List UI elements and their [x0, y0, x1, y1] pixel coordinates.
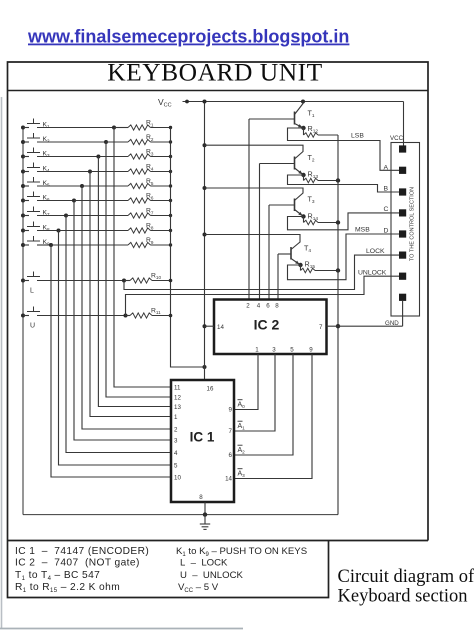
wire K4 to IC1 input pin: [90, 172, 171, 417]
wire connector GND pin down: [402, 301, 404, 326]
resistor R6: [128, 198, 151, 203]
wire R11 to pull-up bus: [152, 315, 171, 317]
op IC2 7407 buffer box: [214, 300, 327, 355]
wire K7 to IC1 input pin: [66, 216, 171, 453]
resistor R12: [304, 128, 319, 137]
wire K6 to IC1 input pin: [74, 201, 171, 441]
svg-text:5: 5: [290, 347, 294, 354]
node K5 tap junction: [80, 184, 84, 188]
svg-text:10: 10: [174, 474, 181, 481]
svg-text:7: 7: [229, 428, 233, 435]
wire R6 to pull-up bus: [151, 200, 171, 202]
wire R9 to pull-up bus: [151, 244, 171, 246]
node T2 emitter: [301, 173, 305, 177]
pin C connector: [399, 209, 406, 216]
wire K5 to IC1 input pin: [82, 186, 171, 429]
svg-text:IC 1 – 74147 (ENCODER): IC 1 – 74147 (ENCODER): [15, 546, 149, 557]
node ground rail junction: [203, 512, 207, 516]
node R13 ground junction: [336, 178, 340, 182]
node T3 emitter: [301, 214, 305, 218]
wire R13 to ground bus: [318, 180, 338, 182]
pin B connector: [399, 188, 406, 195]
pin UNLOCK connector: [399, 273, 406, 280]
key K2 push-to-on switch: [21, 133, 106, 144]
svg-text:7: 7: [319, 324, 323, 331]
svg-text:6: 6: [229, 452, 233, 459]
key U unlock switch: [21, 307, 126, 318]
resistor R15: [301, 265, 316, 273]
wire IC2 pin7 to connector GND: [327, 325, 403, 327]
svg-text:U: U: [30, 323, 35, 330]
wire R10 to pull-up bus: [152, 280, 171, 282]
transistor T4: [205, 235, 301, 266]
node VCC rail junction: [203, 100, 207, 104]
wire IC2 buffer output to T4 base: [277, 254, 279, 300]
svg-text:VCC – 5 V: VCC – 5 V: [178, 582, 219, 594]
svg-text:Circuit diagram of: Circuit diagram of: [338, 567, 474, 587]
node K1 tap junction: [112, 126, 116, 130]
svg-text:B: B: [384, 186, 389, 193]
op IC1 74147 encoder box: [171, 380, 234, 502]
wire VCC to control connector: [403, 102, 405, 147]
wire VCC rail: [183, 101, 404, 103]
node IC2 pin14 junction: [203, 324, 207, 328]
wire IC1 output A3 to IC2 input: [234, 354, 312, 479]
svg-text:1: 1: [255, 347, 259, 354]
node K9 tap junction: [49, 243, 53, 247]
wire K9 to IC1 input pin: [51, 245, 171, 477]
node R15 ground junction: [336, 268, 340, 272]
wire UNLOCK signal from U key to connector: [126, 276, 400, 315]
wire R14 to ground bus: [318, 222, 338, 224]
node K8 tap junction: [57, 229, 61, 233]
pin A connector: [399, 167, 406, 174]
svg-text:8: 8: [275, 303, 279, 310]
wire LOCK signal from L key to connector: [124, 255, 399, 289]
wire R15 to ground bus: [315, 270, 338, 272]
svg-text:4: 4: [174, 450, 178, 457]
key K7 push-to-on switch: [21, 207, 66, 218]
node pull-up bus joins VCC bus: [203, 365, 207, 369]
wire T2 emitter output: [288, 175, 400, 192]
wire K3 to resistor R3: [98, 156, 128, 158]
svg-text:L: L: [30, 288, 34, 295]
resistor R9: [128, 242, 151, 247]
wire K2 to resistor R2: [106, 141, 128, 143]
wire T1 emitter output: [288, 128, 400, 170]
node L tap junction: [122, 279, 126, 283]
resistor R14: [304, 217, 319, 225]
wire K6 to resistor R6: [74, 200, 128, 202]
pin D connector: [399, 230, 406, 237]
svg-text:8: 8: [199, 494, 203, 501]
svg-text:A: A: [384, 164, 389, 171]
svg-text:MSB: MSB: [355, 227, 370, 234]
wire IC2 buffer output to T1 base: [248, 119, 250, 300]
key L lock switch: [21, 272, 124, 283]
node VCC rail left junction: [185, 100, 189, 104]
wire K5 to resistor R5: [82, 185, 128, 187]
wire K8 to IC1 input pin: [59, 231, 172, 466]
key K8 push-to-on switch: [21, 222, 59, 233]
wire IC2 buffer output to T2 base: [259, 164, 261, 300]
node T1 emitter: [301, 126, 305, 130]
svg-text:U – UNLOCK: U – UNLOCK: [180, 570, 244, 581]
wire IC2 buffer output to T3 base: [268, 205, 270, 300]
svg-text:GND: GND: [385, 320, 399, 327]
pin GND connector: [399, 294, 406, 301]
transistor T3: [205, 188, 304, 217]
key K9 push-to-on switch: [21, 236, 51, 247]
svg-text:IC 1: IC 1: [190, 430, 215, 445]
node T2 collector junction: [203, 143, 207, 147]
node T3 collector junction: [203, 186, 207, 190]
node T4 collector junction: [203, 233, 207, 237]
svg-text:K1 to K9 – PUSH TO ON KEYS: K1 to K9 – PUSH TO ON KEYS: [176, 546, 307, 558]
resistor R11: [130, 313, 152, 318]
node K3 tap junction: [96, 155, 100, 159]
node K7 tap junction: [64, 214, 68, 218]
svg-text:www.finalsemeceprojects.blogsp: www.finalsemeceprojects.blogspot.in: [27, 27, 349, 47]
svg-text:L – LOCK: L – LOCK: [180, 558, 228, 569]
svg-text:3: 3: [174, 437, 178, 444]
svg-text:IC 2 – 7407 (NOT gate): IC 2 – 7407 (NOT gate): [15, 558, 140, 569]
node K2 tap junction: [104, 140, 108, 144]
wire R1 to pull-up bus: [151, 127, 171, 129]
outer border frame of schematic: [8, 62, 429, 598]
wire resistor pull-up bus to VCC: [171, 128, 205, 368]
wire R12 to ground bus: [318, 134, 338, 136]
svg-text:TO THE CONTROL SECTION: TO THE CONTROL SECTION: [410, 187, 416, 261]
svg-text:UNLOCK: UNLOCK: [358, 270, 387, 277]
pin LOCK connector: [399, 252, 406, 259]
svg-text:13: 13: [174, 404, 181, 411]
decorative page border lines: [1, 97, 3, 629]
wire K8 to resistor R8: [59, 230, 129, 232]
svg-text:Keyboard section: Keyboard section: [338, 587, 468, 607]
wire L row to resistor R10: [124, 280, 130, 282]
wire K4 to resistor R4: [90, 171, 128, 173]
key K4 push-to-on switch: [21, 163, 90, 174]
resistor R5: [128, 183, 151, 188]
wire R3 to pull-up bus: [151, 156, 171, 158]
wire K1 to resistor R1: [114, 127, 128, 129]
resistor R13: [304, 175, 319, 183]
node U tap junction: [124, 314, 128, 318]
svg-text:5: 5: [174, 462, 178, 469]
svg-text:D: D: [384, 228, 389, 235]
wire IC1 pin8 to ground: [204, 502, 206, 515]
svg-text:6: 6: [266, 303, 270, 310]
transistor T2: [205, 145, 304, 175]
wire IC1 output A0 to IC2 input: [234, 354, 258, 410]
node K4 tap junction: [88, 170, 92, 174]
svg-text:3: 3: [272, 347, 276, 354]
wire ground rail bottom: [23, 514, 338, 516]
svg-text:2: 2: [246, 303, 250, 310]
resistor R10: [130, 278, 152, 283]
ground symbol: [200, 515, 210, 530]
connector to control section box: [391, 143, 420, 317]
svg-text:14: 14: [225, 476, 232, 483]
resistor R8: [128, 228, 151, 233]
node ground bus / GND wire junction: [336, 324, 340, 328]
svg-text:16: 16: [207, 386, 214, 393]
svg-text:9: 9: [229, 407, 233, 414]
title underline: [8, 90, 429, 92]
svg-text:9: 9: [309, 347, 313, 354]
resistor R2: [128, 139, 151, 144]
svg-text:2: 2: [174, 426, 178, 433]
node T1 collector rail junction: [301, 100, 305, 104]
svg-text:4: 4: [257, 303, 261, 310]
svg-text:VCC: VCC: [390, 135, 404, 142]
transistor T1: [249, 102, 304, 129]
node K6 tap junction: [72, 199, 76, 203]
node T4 emitter: [298, 263, 302, 267]
resistor R4: [128, 169, 151, 174]
wire left common key bus: [22, 128, 24, 515]
svg-text:LOCK: LOCK: [366, 248, 385, 255]
svg-text:11: 11: [174, 384, 181, 391]
svg-text:1: 1: [174, 414, 178, 421]
pin VCC connector: [399, 145, 406, 152]
svg-text:C: C: [384, 206, 389, 213]
wire IC1 output A2 to IC2 input: [234, 354, 293, 455]
key K3 push-to-on switch: [21, 148, 98, 159]
wire ground bus for emitter resistors: [337, 135, 339, 515]
wire R5 to pull-up bus: [151, 185, 171, 187]
svg-text:12: 12: [174, 394, 181, 401]
wire U row to resistor R11: [126, 315, 131, 317]
node R14 ground junction: [336, 220, 340, 224]
wire K9 to resistor R9: [51, 244, 128, 246]
svg-text:KEYBOARD UNIT: KEYBOARD UNIT: [107, 58, 322, 87]
wire R4 to pull-up bus: [151, 171, 171, 173]
wire IC2 pin14 to VCC bus: [205, 325, 215, 327]
svg-text:LSB: LSB: [351, 133, 364, 140]
node pull-up bus / R11 junction: [169, 314, 173, 318]
resistor R1: [128, 125, 151, 130]
resistor R7: [128, 213, 151, 218]
wire K7 to resistor R7: [66, 215, 128, 217]
wire T3 emitter output: [288, 213, 400, 230]
svg-text:14: 14: [217, 324, 224, 331]
svg-text:R1 to R15 – 2.2 K ohm: R1 to R15 – 2.2 K ohm: [15, 582, 120, 594]
wire VCC vertical bus to ICs: [204, 102, 206, 381]
wire K1 to IC1 input pin: [114, 128, 171, 388]
key K6 push-to-on switch: [21, 192, 74, 203]
resistor R3: [128, 154, 151, 159]
wire R8 to pull-up bus: [151, 230, 171, 232]
wire K2 to IC1 input pin: [106, 142, 171, 397]
wire IC1 output A1 to IC2 input: [234, 354, 275, 431]
wire T4 emitter output: [288, 234, 400, 280]
key K5 push-to-on switch: [21, 177, 82, 188]
key K1 push-to-on switch: [21, 119, 114, 130]
svg-text:IC 2: IC 2: [254, 317, 280, 333]
wire R7 to pull-up bus: [151, 215, 171, 217]
svg-text:T1 to T4 – BC 547: T1 to T4 – BC 547: [15, 570, 100, 582]
wire R2 to pull-up bus: [151, 141, 171, 143]
wire K3 to IC1 input pin: [98, 157, 171, 407]
